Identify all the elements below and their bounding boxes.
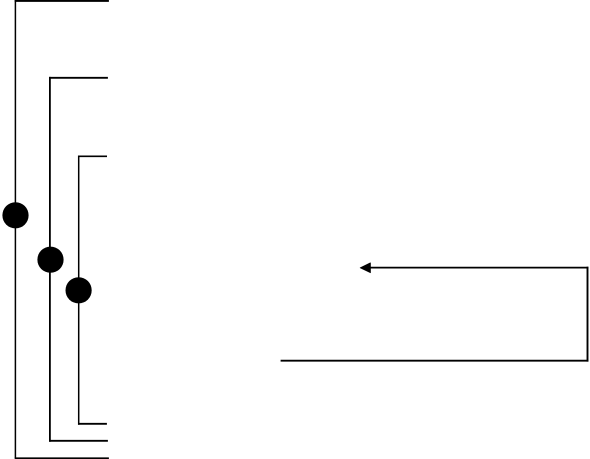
arrowhead: left-pointing arrow tip: [360, 263, 370, 273]
node: junction dot on outer bracket: [2, 202, 28, 228]
wire: middle bracket top horizontal: [49, 77, 108, 79]
node: junction dot on middle bracket: [37, 247, 63, 273]
wire: inner bracket left vertical: [78, 156, 80, 425]
wire: inner bracket bottom horizontal: [78, 423, 107, 425]
wire: inner bracket top horizontal: [78, 155, 107, 157]
wire: loop bottom horizontal: [281, 360, 589, 362]
node: junction dot on inner bracket: [66, 277, 92, 303]
wire: middle bracket bottom horizontal: [49, 440, 108, 442]
wire: middle bracket left vertical: [49, 77, 51, 442]
wire: feedback arrow horizontal shaft: [369, 267, 588, 269]
wire: outer bracket top horizontal: [15, 0, 109, 2]
wire: loop right vertical: [587, 267, 589, 362]
wire: outer bracket left vertical: [14, 0, 16, 458]
wire: outer bracket bottom horizontal: [15, 457, 109, 459]
